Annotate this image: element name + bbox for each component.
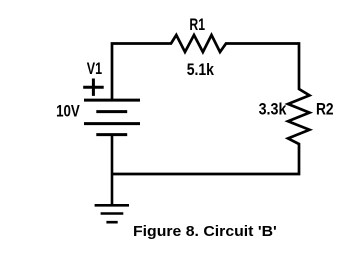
svg-text:5.1k: 5.1k bbox=[187, 61, 215, 79]
svg-text:R1: R1 bbox=[189, 16, 205, 34]
svg-text:R2: R2 bbox=[316, 101, 334, 119]
svg-text:3.3k: 3.3k bbox=[259, 101, 288, 119]
svg-text:Figure 8. Circuit 'B': Figure 8. Circuit 'B' bbox=[133, 224, 277, 240]
svg-text:V1: V1 bbox=[87, 60, 102, 78]
svg-text:10V: 10V bbox=[56, 103, 80, 121]
